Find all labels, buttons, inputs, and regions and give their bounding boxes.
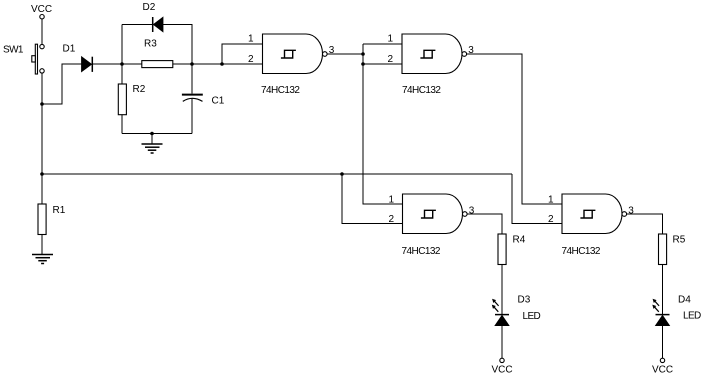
wire top loop right (163, 25, 192, 94)
svg-text:74HC132: 74HC132 (402, 85, 441, 96)
wire D1 to node B (93, 63, 142, 65)
svg-text:1: 1 (388, 195, 394, 206)
svg-text:D1: D1 (63, 44, 76, 55)
svg-text:R3: R3 (144, 39, 157, 50)
junction U1B pin2 (361, 62, 365, 66)
junction node C (190, 62, 194, 66)
svg-text:2: 2 (248, 54, 254, 65)
wire left branch vertical (121, 25, 123, 85)
wire feedback to U1D pin2 (512, 174, 562, 224)
svg-text:74HC132: 74HC132 (562, 246, 601, 257)
wire R1 to ground (41, 235, 43, 255)
resistor R3 (142, 39, 173, 68)
svg-text:74HC132: 74HC132 (402, 246, 441, 257)
nand gate U1D 74HC132 (548, 194, 634, 257)
wire R3 to gate U1A pin2 (173, 63, 263, 65)
junction U1A out (361, 52, 365, 56)
wire top loop left (122, 24, 152, 26)
ground (RC network) (142, 134, 163, 154)
svg-text:D4: D4 (678, 294, 691, 305)
svg-text:C1: C1 (212, 96, 225, 107)
nand gate U1C 74HC132 (388, 194, 474, 257)
junction left node (40, 172, 44, 176)
wire to U1C pin2 (342, 174, 403, 224)
junction ground node (150, 132, 154, 136)
svg-text:VCC: VCC (652, 365, 673, 376)
wire bottom loop (122, 133, 192, 135)
svg-text:R2: R2 (133, 84, 146, 95)
wire vertical bus from U1A output (363, 44, 403, 204)
svg-text:SW1: SW1 (3, 45, 24, 56)
svg-text:1: 1 (248, 34, 254, 45)
ground (R1) (32, 255, 53, 264)
diode D2 (143, 2, 164, 32)
svg-text:2: 2 (548, 214, 554, 225)
svg-text:R4: R4 (513, 235, 526, 246)
wire U1D output to R5 (627, 214, 663, 234)
svg-text:D3: D3 (518, 294, 531, 305)
svg-text:74HC132: 74HC132 (261, 85, 300, 96)
wire U1C output to R4 (467, 214, 502, 234)
svg-text:2: 2 (388, 214, 394, 225)
wire U1B output to U1D pin1 (467, 54, 562, 204)
power VCC (D4) (652, 358, 673, 375)
svg-text:1: 1 (548, 195, 554, 206)
wire R5 to LED D4 (662, 265, 664, 315)
wire node to D1 (42, 64, 82, 104)
junction node D (220, 62, 224, 66)
wire D3 to VCC (501, 326, 503, 359)
junction node B (120, 62, 124, 66)
wire R2 to bottom loop (121, 115, 123, 134)
svg-text:R5: R5 (673, 235, 686, 246)
wire to U1B pin1 (363, 43, 402, 45)
resistor R4 (498, 234, 526, 265)
power VCC top-left (31, 4, 52, 19)
junction at switch node (40, 102, 44, 106)
resistor R5 (659, 234, 686, 265)
capacitor C1 (182, 95, 225, 134)
nand gate U1A 74HC132 (248, 34, 335, 97)
resistor R1 (38, 204, 66, 235)
svg-text:LED: LED (683, 311, 701, 322)
svg-text:3: 3 (469, 206, 475, 217)
svg-text:LED: LED (523, 311, 541, 322)
LED D4 (652, 294, 701, 325)
svg-text:3: 3 (628, 206, 634, 217)
resistor R2 (118, 84, 145, 115)
diode D1 (63, 44, 93, 72)
svg-text:2: 2 (387, 54, 393, 65)
wire D4 to VCC (662, 326, 664, 359)
power VCC (D3) (491, 358, 512, 375)
pushbutton SW1 (3, 44, 44, 74)
svg-text:VCC: VCC (491, 365, 512, 376)
wire SW1 down to node (41, 73, 43, 204)
wire U1A output to U1B (327, 53, 363, 55)
LED D3 (492, 294, 541, 325)
nand gate U1B 74HC132 (387, 34, 474, 97)
wire R4 to LED D3 (501, 265, 503, 315)
svg-text:VCC: VCC (31, 4, 52, 15)
wire VCC to SW1 (41, 19, 43, 44)
long feedback wire (42, 173, 512, 175)
svg-text:D2: D2 (143, 2, 156, 13)
wire to U1A pin1 (222, 44, 263, 64)
wire to U1B pin2 (363, 63, 402, 65)
svg-text:R1: R1 (53, 205, 66, 216)
junction feedback to U1C (340, 172, 344, 176)
svg-text:1: 1 (387, 34, 393, 45)
